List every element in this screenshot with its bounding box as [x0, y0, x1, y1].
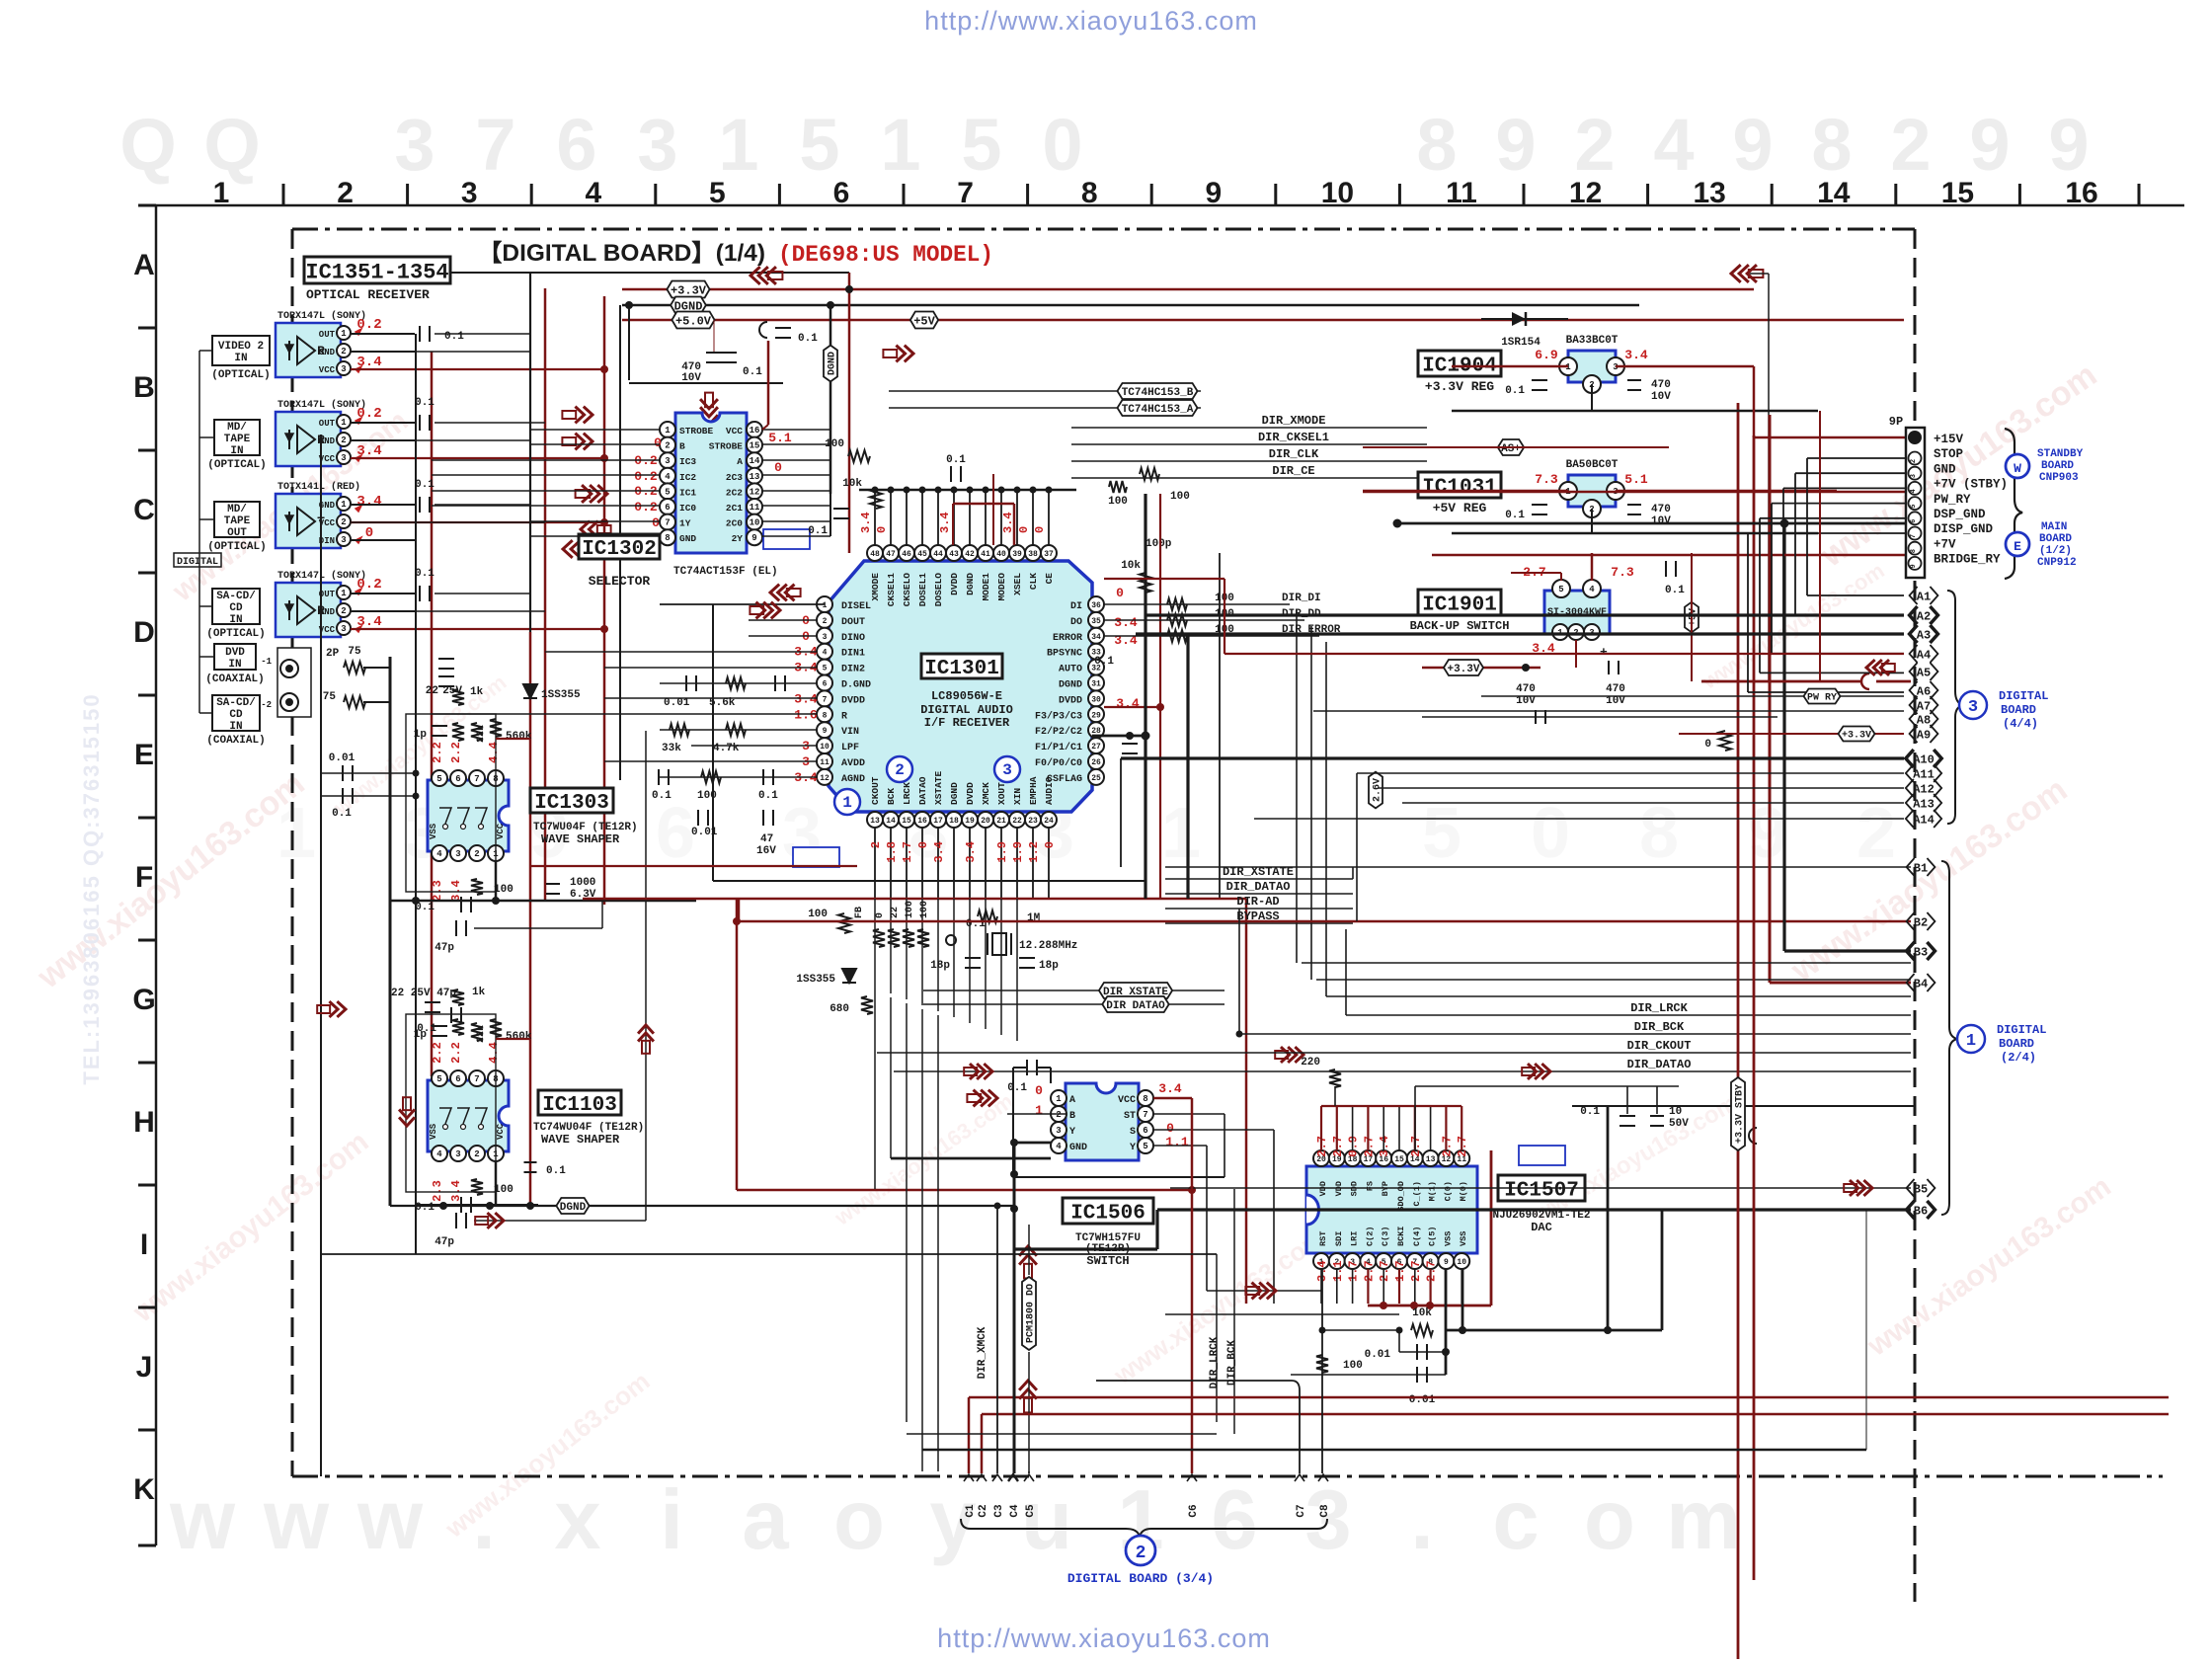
svg-text:16: 16: [750, 426, 760, 436]
svg-text:DIR_DATAO: DIR_DATAO: [1627, 1058, 1692, 1071]
svg-text:CE: CE: [1044, 573, 1055, 585]
svg-text:C6: C6: [1188, 1504, 1200, 1517]
svg-text:3.4: 3.4: [932, 841, 946, 863]
svg-text:100: 100: [919, 901, 930, 918]
svg-text:5: 5: [665, 487, 670, 497]
svg-text:A13: A13: [1913, 797, 1935, 811]
svg-text:IC1031: IC1031: [1422, 477, 1497, 500]
svg-text:5: 5: [1558, 585, 1563, 594]
svg-text:DIGITAL: DIGITAL: [1999, 689, 2048, 703]
svg-text:4.4: 4.4: [487, 742, 501, 763]
svg-text:VCC: VCC: [1118, 1095, 1136, 1106]
svg-text:47: 47: [760, 833, 773, 845]
svg-text:ERROR: ERROR: [1053, 633, 1082, 644]
svg-text:9P: 9P: [1889, 415, 1903, 429]
svg-text:31: 31: [1091, 680, 1101, 689]
svg-text:470: 470: [1606, 683, 1625, 695]
svg-text:C3: C3: [993, 1504, 1005, 1518]
svg-text:0.1: 0.1: [1094, 656, 1114, 668]
svg-text:5.1: 5.1: [1624, 472, 1648, 487]
svg-text:22k: 22k: [475, 725, 487, 743]
svg-text:IC1: IC1: [679, 487, 696, 498]
svg-text:DIR DATAO: DIR DATAO: [1106, 1000, 1165, 1012]
svg-text:IC1351-1354: IC1351-1354: [305, 260, 448, 284]
svg-text:7: 7: [474, 774, 479, 784]
svg-text:9: 9: [1444, 1258, 1449, 1267]
svg-text:+3.3V: +3.3V: [1447, 664, 1479, 675]
svg-text:i: i: [660, 1473, 683, 1567]
svg-text:TORX147L (SONY): TORX147L (SONY): [277, 399, 366, 411]
svg-text:CKSEL1: CKSEL1: [886, 573, 897, 607]
svg-text:C2: C2: [978, 1504, 989, 1517]
svg-text:LRCK: LRCK: [902, 782, 912, 805]
svg-text:0: 0: [654, 436, 662, 450]
svg-text:AUTO: AUTO: [1059, 665, 1082, 675]
svg-text:C7: C7: [1296, 1504, 1307, 1517]
svg-text:0.01: 0.01: [664, 697, 690, 709]
svg-text:DVDD: DVDD: [1059, 695, 1082, 706]
svg-text:0: 0: [1042, 104, 1082, 186]
svg-text:5: 5: [1910, 504, 1918, 508]
svg-text:0.01: 0.01: [1365, 1349, 1391, 1361]
svg-text:40: 40: [996, 550, 1006, 559]
svg-text:EMPHA: EMPHA: [1028, 776, 1039, 805]
svg-text:4: 4: [436, 849, 442, 859]
svg-text:2Y: 2Y: [732, 533, 744, 544]
svg-text:1: 1: [823, 601, 828, 610]
svg-text:8: 8: [665, 533, 670, 543]
svg-text:100: 100: [1343, 1360, 1363, 1372]
svg-text:0.2: 0.2: [634, 469, 658, 484]
svg-text:TOTX141L (RED): TOTX141L (RED): [277, 481, 360, 493]
svg-text:BACK-UP SWITCH: BACK-UP SWITCH: [1410, 619, 1510, 633]
svg-text:14: 14: [886, 817, 896, 826]
svg-text:1.7: 1.7: [901, 841, 914, 863]
svg-text:A9: A9: [1917, 728, 1931, 742]
svg-text:1: 1: [1966, 1032, 1976, 1051]
svg-text:DIR_BCK: DIR_BCK: [1634, 1020, 1685, 1034]
svg-text:C4: C4: [1009, 1504, 1021, 1518]
svg-text:VSS: VSS: [429, 1123, 438, 1140]
svg-text:DIR_XMODE: DIR_XMODE: [1262, 414, 1326, 428]
svg-text:-1: -1: [261, 657, 272, 667]
svg-text:IC0: IC0: [679, 503, 696, 514]
svg-text:47p: 47p: [434, 1236, 454, 1248]
svg-text:0.1: 0.1: [415, 1202, 434, 1214]
svg-text:Y: Y: [1130, 1143, 1136, 1153]
svg-text:2: 2: [1574, 104, 1615, 186]
svg-text:3: 3: [823, 633, 828, 642]
svg-text:LRI: LRI: [1350, 1231, 1360, 1246]
svg-text:25V: 25V: [442, 685, 462, 697]
svg-text:100: 100: [1170, 491, 1190, 503]
svg-text:MAIN: MAIN: [2041, 521, 2067, 533]
svg-text:27: 27: [1091, 743, 1101, 752]
svg-text:3: 3: [1002, 761, 1012, 779]
svg-text:+3.3V: +3.3V: [1842, 731, 1871, 742]
svg-text:SA-CD/: SA-CD/: [216, 697, 256, 709]
svg-text:B: B: [133, 371, 155, 404]
svg-text:22: 22: [1012, 817, 1022, 826]
svg-text:H: H: [133, 1106, 155, 1139]
svg-text:M(1): M(1): [1428, 1181, 1438, 1201]
svg-text:4: 4: [585, 177, 601, 209]
svg-text:8: 8: [1416, 104, 1457, 186]
svg-text:1SS355: 1SS355: [541, 689, 581, 701]
svg-text:CD: CD: [229, 709, 243, 721]
svg-text:+7V (STBY): +7V (STBY): [1934, 478, 2008, 492]
svg-text:3: 3: [1910, 474, 1918, 478]
svg-text:a: a: [742, 1473, 789, 1567]
svg-text:+5V: +5V: [1689, 608, 1699, 626]
svg-text:DIGITAL AUDIO: DIGITAL AUDIO: [920, 703, 1013, 717]
svg-text:+5V: +5V: [913, 314, 935, 328]
svg-text:16: 16: [917, 817, 927, 826]
svg-text:C1: C1: [965, 1504, 977, 1518]
svg-text:2.3: 2.3: [431, 1180, 444, 1202]
svg-text:DVD: DVD: [225, 647, 245, 659]
svg-text:3.4: 3.4: [1158, 1081, 1182, 1096]
svg-text:DIR_CKSEL1: DIR_CKSEL1: [1258, 431, 1329, 444]
svg-text:0.1: 0.1: [743, 366, 762, 378]
svg-text:5: 5: [961, 104, 1001, 186]
svg-text:39: 39: [1012, 550, 1022, 559]
svg-text:DAC: DAC: [1531, 1221, 1552, 1234]
svg-text:OUT: OUT: [319, 330, 336, 340]
svg-text:3: 3: [341, 624, 346, 634]
svg-text:E: E: [2014, 539, 2021, 554]
svg-text:15: 15: [750, 441, 760, 451]
svg-text:9: 9: [1969, 104, 2010, 186]
svg-text:0: 0: [365, 525, 373, 541]
svg-text:8: 8: [1143, 1094, 1147, 1104]
svg-text:AVDD: AVDD: [841, 758, 865, 769]
svg-text:D: D: [133, 616, 155, 649]
svg-text:http://www.xiaoyu163.com: http://www.xiaoyu163.com: [924, 6, 1258, 36]
svg-text:SWITCH: SWITCH: [1086, 1254, 1129, 1268]
svg-text:DISEL: DISEL: [841, 601, 871, 612]
svg-text:13: 13: [870, 817, 880, 826]
svg-text:(DE698:US MODEL): (DE698:US MODEL): [778, 242, 993, 268]
svg-text:50V: 50V: [1669, 1118, 1689, 1130]
svg-text:IN: IN: [230, 445, 243, 457]
svg-text:B5: B5: [1914, 1182, 1928, 1196]
svg-text:TC74HC153_A: TC74HC153_A: [1122, 404, 1194, 416]
svg-text:43: 43: [949, 550, 959, 559]
svg-text:220: 220: [1301, 1057, 1320, 1069]
svg-text:6: 6: [556, 104, 596, 186]
svg-text:12: 12: [820, 774, 829, 783]
svg-text:3: 3: [637, 104, 677, 186]
svg-text:XMODE: XMODE: [870, 573, 881, 601]
svg-text:0: 0: [1033, 526, 1047, 533]
svg-text:F: F: [135, 861, 153, 894]
svg-text:DATAO: DATAO: [917, 776, 928, 805]
svg-text:14: 14: [750, 456, 760, 466]
svg-text:1.9: 1.9: [995, 841, 1009, 863]
svg-text:2: 2: [341, 517, 346, 527]
svg-text:DIN2: DIN2: [841, 665, 865, 675]
svg-text:2: 2: [337, 177, 354, 209]
svg-text:2C2: 2C2: [726, 487, 743, 498]
svg-text:41: 41: [981, 550, 990, 559]
svg-text:15: 15: [902, 817, 911, 826]
svg-text:0: 0: [774, 460, 782, 475]
svg-text:1: 1: [880, 104, 920, 186]
svg-text:10: 10: [820, 743, 829, 752]
svg-text:4.4: 4.4: [487, 1042, 501, 1064]
svg-text:A: A: [133, 249, 155, 281]
svg-text:0: 0: [1704, 739, 1711, 751]
svg-text:3: 3: [1304, 1473, 1351, 1567]
svg-text:A1: A1: [1917, 590, 1931, 603]
svg-text:IN: IN: [229, 614, 242, 626]
svg-text:DINO: DINO: [841, 633, 865, 644]
svg-text:BCKI: BCKI: [1396, 1227, 1406, 1246]
svg-text:15: 15: [1941, 177, 1974, 209]
svg-text:MD/: MD/: [227, 504, 247, 515]
svg-text:A6: A6: [1917, 684, 1931, 698]
svg-text:2.2: 2.2: [431, 742, 444, 763]
svg-text:F1/P1/C1: F1/P1/C1: [1035, 742, 1082, 753]
svg-text:2.7: 2.7: [1378, 1260, 1391, 1282]
svg-text:R: R: [841, 711, 847, 722]
svg-text:PCM1800 DO: PCM1800 DO: [1026, 1284, 1037, 1343]
svg-text:1: 1: [276, 794, 316, 873]
svg-text:0.1: 0.1: [444, 331, 464, 343]
svg-text:1000: 1000: [570, 877, 595, 889]
svg-text:DO: DO: [1070, 617, 1082, 628]
svg-text:2: 2: [1910, 459, 1918, 463]
svg-text:4: 4: [823, 649, 828, 658]
svg-text:560k: 560k: [506, 1031, 532, 1043]
svg-text:w: w: [356, 1473, 424, 1567]
svg-text:100: 100: [808, 909, 828, 920]
svg-text:0: 0: [1531, 794, 1570, 873]
svg-text:1p: 1p: [414, 729, 428, 741]
svg-text:2: 2: [869, 841, 883, 848]
svg-text:1: 1: [842, 794, 852, 812]
svg-text:VCC: VCC: [726, 426, 743, 436]
svg-text:3: 3: [341, 364, 346, 374]
svg-text:BOARD: BOARD: [1999, 1037, 2034, 1051]
svg-text:TC74ACT153F (EL): TC74ACT153F (EL): [673, 566, 778, 578]
svg-text:http://www.xiaoyu163.com: http://www.xiaoyu163.com: [937, 1623, 1271, 1653]
svg-text:1.9: 1.9: [1011, 841, 1025, 863]
svg-text:CKSELO: CKSELO: [902, 573, 912, 607]
svg-text:IN: IN: [234, 353, 247, 364]
svg-text:A14: A14: [1913, 813, 1935, 827]
svg-text:1: 1: [341, 329, 347, 339]
svg-text:5: 5: [823, 665, 828, 673]
svg-text:3.4: 3.4: [964, 841, 978, 863]
svg-text:VCC: VCC: [496, 1123, 506, 1140]
svg-text:10: 10: [1321, 177, 1354, 209]
svg-text:(OPTICAL): (OPTICAL): [207, 541, 266, 553]
svg-text:0.1: 0.1: [415, 397, 434, 409]
svg-text:u: u: [1021, 1473, 1072, 1567]
svg-text:DVDD: DVDD: [965, 782, 976, 805]
svg-text:E: E: [134, 739, 154, 771]
svg-text:DGND: DGND: [949, 782, 960, 805]
svg-text:DIGITAL: DIGITAL: [1997, 1023, 2046, 1037]
svg-text:3: 3: [394, 104, 434, 186]
svg-text:B: B: [1069, 1111, 1075, 1122]
svg-text:VSS: VSS: [1459, 1231, 1468, 1246]
svg-text:5: 5: [799, 104, 839, 186]
svg-text:IC2: IC2: [679, 472, 696, 483]
svg-text:DIR_CE: DIR_CE: [1272, 464, 1314, 478]
svg-text:42: 42: [965, 550, 975, 559]
svg-text:C(3): C(3): [1381, 1227, 1390, 1246]
svg-text:AGND: AGND: [841, 774, 865, 785]
svg-text:470: 470: [1516, 683, 1536, 695]
svg-text:2: 2: [1856, 794, 1896, 873]
svg-text:22 25V 47p: 22 25V 47p: [391, 988, 456, 999]
svg-text:SDI: SDI: [1334, 1231, 1344, 1246]
svg-text:19: 19: [965, 817, 975, 826]
svg-text:1p: 1p: [414, 1029, 428, 1041]
svg-text:VIDEO 2: VIDEO 2: [218, 341, 264, 353]
svg-text:3.4: 3.4: [859, 512, 873, 533]
svg-text:1.2: 1.2: [1027, 841, 1041, 863]
svg-text:8: 8: [1811, 104, 1852, 186]
svg-text:IC3: IC3: [679, 456, 696, 467]
svg-text:A: A: [737, 456, 743, 467]
svg-text:6: 6: [1910, 519, 1918, 523]
svg-text:2.7: 2.7: [1409, 1260, 1423, 1282]
svg-text:CKOUT: CKOUT: [870, 776, 881, 805]
svg-text:5: 5: [1143, 1142, 1147, 1151]
svg-text:13: 13: [1426, 1155, 1436, 1164]
svg-text:VCC: VCC: [319, 365, 336, 375]
svg-text:+5V REG: +5V REG: [1433, 501, 1487, 515]
svg-text:IC1506: IC1506: [1070, 1203, 1145, 1226]
svg-text:Y: Y: [1069, 1127, 1075, 1138]
svg-text:18p: 18p: [1039, 960, 1059, 972]
svg-text:1k: 1k: [472, 987, 486, 998]
svg-text:9: 9: [1205, 177, 1222, 209]
svg-text:2P: 2P: [326, 648, 340, 660]
svg-text:RST: RST: [1318, 1231, 1328, 1246]
svg-text:CNP903: CNP903: [2039, 472, 2079, 484]
svg-text:100p: 100p: [1145, 538, 1172, 550]
svg-text:SELECTOR: SELECTOR: [589, 574, 651, 589]
svg-text:37: 37: [1044, 550, 1054, 559]
svg-text:LPF: LPF: [841, 743, 859, 753]
svg-text:36: 36: [1091, 601, 1101, 610]
svg-text:CNP912: CNP912: [2037, 557, 2077, 569]
svg-text:0.1: 0.1: [1007, 1082, 1027, 1094]
svg-text:DGND: DGND: [828, 352, 838, 375]
svg-text:0.01: 0.01: [329, 752, 355, 764]
svg-text:F2/P2/C2: F2/P2/C2: [1035, 726, 1082, 738]
svg-text:(2/4): (2/4): [2001, 1051, 2036, 1065]
svg-text:WAVE SHAPER: WAVE SHAPER: [541, 832, 620, 846]
svg-text:MODEO: MODEO: [996, 573, 1007, 601]
svg-text:34: 34: [1091, 633, 1101, 642]
svg-text:1: 1: [665, 426, 671, 436]
svg-text:CSFLAG: CSFLAG: [1047, 774, 1082, 785]
svg-text:22: 22: [426, 685, 438, 697]
svg-text:TAPE: TAPE: [224, 515, 251, 527]
svg-text:16: 16: [2065, 177, 2097, 209]
svg-text:A5: A5: [1917, 666, 1931, 679]
svg-text:10: 10: [1669, 1106, 1682, 1118]
svg-text:DIR_DATAO: DIR_DATAO: [1226, 880, 1291, 894]
svg-text:0.1: 0.1: [415, 479, 434, 491]
svg-text:3: 3: [665, 456, 670, 466]
svg-text:DVDD: DVDD: [949, 573, 960, 595]
svg-text:DIR_LRCK: DIR_LRCK: [1630, 1001, 1688, 1015]
svg-text:0.2: 0.2: [634, 500, 658, 515]
svg-text:MD/: MD/: [227, 422, 247, 434]
svg-text:4.7k: 4.7k: [713, 743, 740, 754]
svg-text:C(4): C(4): [1412, 1227, 1422, 1246]
svg-text:6: 6: [1143, 1126, 1147, 1136]
svg-text:OUT: OUT: [319, 419, 336, 429]
svg-text:XIN: XIN: [1012, 788, 1023, 805]
svg-text:MODE1: MODE1: [981, 573, 991, 601]
svg-text:DIR_CKOUT: DIR_CKOUT: [1627, 1039, 1692, 1053]
svg-text:10: 10: [1457, 1258, 1466, 1267]
svg-text:0: 0: [1116, 586, 1124, 600]
svg-text:2.2: 2.2: [449, 1042, 463, 1064]
svg-text:12.288MHz: 12.288MHz: [1019, 940, 1077, 952]
svg-text:DOSELO: DOSELO: [933, 573, 944, 607]
svg-text:B6: B6: [1914, 1204, 1928, 1218]
svg-text:DISP_GND: DISP_GND: [1934, 522, 1994, 536]
svg-text:J: J: [136, 1351, 153, 1384]
svg-text:16V: 16V: [756, 845, 776, 857]
svg-text:0.1: 0.1: [415, 568, 434, 580]
svg-text:VCC: VCC: [496, 823, 506, 839]
svg-text:7: 7: [1143, 1110, 1147, 1120]
svg-text:3: 3: [341, 453, 346, 463]
svg-text:5.1: 5.1: [768, 431, 792, 445]
svg-text:1.8: 1.8: [885, 841, 899, 863]
svg-text:8: 8: [1081, 177, 1098, 209]
svg-text:22k: 22k: [475, 1025, 487, 1043]
svg-text:13: 13: [750, 472, 760, 482]
svg-text:2.3: 2.3: [431, 880, 444, 902]
svg-text:7: 7: [957, 177, 974, 209]
svg-text:35: 35: [1091, 617, 1101, 626]
svg-text:B3: B3: [1914, 945, 1928, 959]
svg-text:I/F RECEIVER: I/F RECEIVER: [924, 716, 1010, 730]
svg-text:IC1301: IC1301: [924, 658, 999, 680]
svg-text:2C0: 2C0: [726, 518, 743, 529]
svg-text:m: m: [1666, 1473, 1741, 1567]
svg-text:IN: IN: [228, 659, 241, 671]
svg-text:11: 11: [820, 758, 829, 767]
svg-text:IC1507: IC1507: [1504, 1180, 1579, 1203]
svg-text:6: 6: [656, 794, 695, 873]
svg-text:9: 9: [1495, 104, 1536, 186]
svg-text:3.4: 3.4: [1116, 696, 1140, 711]
svg-text:B1: B1: [1914, 861, 1928, 875]
svg-text:3.4: 3.4: [1114, 615, 1138, 630]
svg-text:46: 46: [902, 550, 911, 559]
svg-text:2: 2: [895, 761, 905, 779]
svg-text:48: 48: [870, 550, 880, 559]
svg-text:0: 0: [916, 841, 930, 848]
svg-text:0.1: 0.1: [652, 790, 671, 802]
svg-text:C8: C8: [1319, 1504, 1331, 1518]
svg-text:12: 12: [1569, 177, 1602, 209]
svg-text:8: 8: [1910, 549, 1918, 553]
svg-text:S: S: [1130, 1127, 1136, 1138]
